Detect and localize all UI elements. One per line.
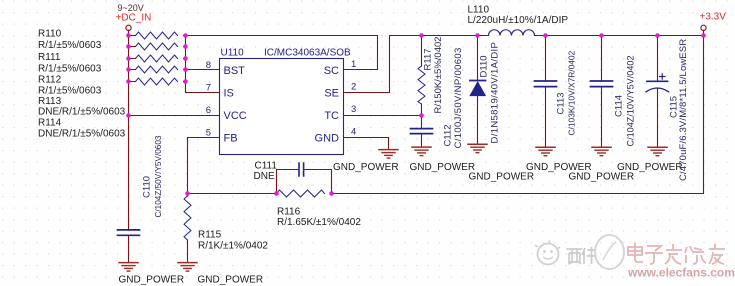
svg-text:SE: SE <box>324 88 339 100</box>
wire C110 to ground <box>128 236 130 262</box>
junction right bus row R113 <box>183 67 188 72</box>
ground GND_POWER under C110 <box>119 263 138 272</box>
svg-text:C113: C113 <box>556 92 567 114</box>
capacitor C111 <box>299 163 304 176</box>
svg-text:DNE/R/1/±5%/0603: DNE/R/1/±5%/0603 <box>38 129 126 140</box>
svg-text:R114: R114 <box>38 118 62 129</box>
svg-text:DNE: DNE <box>254 171 275 182</box>
svg-text:R/1K/±1%/0402: R/1K/±1%/0402 <box>198 241 268 252</box>
svg-text:L110: L110 <box>468 5 490 16</box>
ground GND_POWER under C113 <box>536 147 555 156</box>
resistor R114 <box>136 78 178 85</box>
svg-text:C112: C112 <box>443 124 454 146</box>
svg-text:C/470uF/6.3V/M/8*11.5/LowESR: C/470uF/6.3V/M/8*11.5/LowESR <box>678 39 689 181</box>
junction on DC_IN bus row R113 <box>126 67 131 72</box>
wire R110 leads <box>129 35 186 37</box>
ground GND_POWER under C114 <box>592 147 611 156</box>
svg-text:5: 5 <box>206 128 211 139</box>
svg-text:R/1.65K/±1%/0402: R/1.65K/±1%/0402 <box>277 217 361 228</box>
svg-text:C/104Z/10V/Y5V/0402: C/104Z/10V/Y5V/0402 <box>626 56 636 147</box>
junction output rail C114 tap <box>599 33 604 38</box>
wire pin 3 TC to node <box>343 115 422 117</box>
wire C115 top lead <box>657 36 659 81</box>
junction switch rail D110 tap <box>475 33 480 38</box>
junction switch rail R117 tap <box>419 33 424 38</box>
ground GND_POWER under R115 <box>178 263 197 272</box>
svg-text:DNE/R/1/±5%/0603: DNE/R/1/±5%/0603 <box>38 107 126 118</box>
resistor R113 <box>136 66 178 73</box>
svg-text:9~20V: 9~20V <box>118 3 144 13</box>
svg-text:+DC_IN: +DC_IN <box>116 13 152 24</box>
svg-text:R115: R115 <box>198 230 222 241</box>
wire R117 top lead <box>421 36 423 67</box>
svg-text:www.elecfans.com: www.elecfans.com <box>627 266 735 280</box>
wire C114 to ground <box>601 87 603 146</box>
junction on DC_IN bus VCC tap <box>126 113 131 118</box>
wire output rail to +3.3V <box>535 30 704 35</box>
wire R112 leads <box>129 58 186 60</box>
capacitor C114 <box>591 81 613 87</box>
svg-text:R113: R113 <box>38 96 62 107</box>
wire R115 bottom lead to ground <box>187 240 189 262</box>
wire C113 top lead <box>545 36 547 81</box>
junction right bus row R112 <box>183 56 188 61</box>
svg-text:IC/MC34063A/SOB: IC/MC34063A/SOB <box>264 48 351 59</box>
capacitor C110 <box>118 230 140 235</box>
wire R113 leads <box>129 69 186 71</box>
svg-text:GND_POWER: GND_POWER <box>617 162 683 173</box>
wire pin 5 FB down to feedback node <box>188 138 220 194</box>
svg-text:R/1/±5%/0603: R/1/±5%/0603 <box>38 86 102 97</box>
junction output rail +3.3V corner <box>701 33 706 38</box>
svg-text:C/100J/50V/NP/00603: C/100J/50V/NP/00603 <box>453 47 464 148</box>
ground GND_POWER under C115 <box>648 147 667 156</box>
wire C112 to ground <box>421 134 423 146</box>
ground GND_POWER at pin 4 <box>379 150 398 159</box>
svg-text:GND_POWER: GND_POWER <box>198 275 264 286</box>
junction on DC_IN bus row R110 <box>126 33 131 38</box>
svg-text:4: 4 <box>351 127 356 138</box>
wire R115 top lead <box>187 194 189 197</box>
svg-text:GND: GND <box>315 133 340 145</box>
wire right bus of resistor bank <box>185 36 187 93</box>
wire pin 4 GND to ground <box>343 138 389 150</box>
wire VIN rail to pin 1 SC <box>186 36 378 70</box>
watermark glyph 硬 <box>567 249 583 264</box>
junction on DC_IN bus row R112 <box>126 56 131 61</box>
junction TC node <box>419 113 424 118</box>
svg-text:GND_POWER: GND_POWER <box>469 172 535 183</box>
junction FB node <box>185 191 190 196</box>
wire R114 leads <box>129 81 186 83</box>
svg-text:C111: C111 <box>255 161 278 172</box>
power port +DC_IN circle <box>126 25 131 30</box>
svg-text:R117: R117 <box>423 48 434 70</box>
svg-text:C114: C114 <box>614 95 625 117</box>
svg-text:VCC: VCC <box>224 110 247 122</box>
wire C115 to ground <box>657 88 659 146</box>
junction right bus row R110 <box>183 33 188 38</box>
svg-text:2: 2 <box>351 82 356 93</box>
svg-text:1: 1 <box>351 59 356 70</box>
watermark glyph 子 <box>645 246 663 264</box>
svg-text:BST: BST <box>224 65 246 77</box>
svg-text:R116: R116 <box>277 207 301 218</box>
watermark glyph 电 <box>628 243 643 262</box>
wire TC node to C112 <box>421 116 423 129</box>
junction R116 left node <box>274 191 279 196</box>
svg-text:U110: U110 <box>221 48 245 59</box>
svg-text:TC: TC <box>324 110 339 122</box>
diode D110 <box>470 81 486 96</box>
resistor R111 <box>136 43 178 50</box>
svg-text:7: 7 <box>206 83 211 94</box>
inductor L110 <box>489 30 535 36</box>
svg-text:R/150K/±5%/0402: R/150K/±5%/0402 <box>433 36 444 113</box>
wire C111 branch <box>277 170 332 194</box>
capacitor C115 polarized <box>646 74 669 92</box>
svg-text:GND_POWER: GND_POWER <box>333 162 399 173</box>
svg-text:GND_POWER: GND_POWER <box>569 172 635 183</box>
wire DC_IN left bus vertical <box>128 31 130 230</box>
wire to pin 8 BST <box>186 69 220 71</box>
svg-text:C/103K/10V/X7R/0402: C/103K/10V/X7R/0402 <box>567 50 577 135</box>
svg-text:8: 8 <box>206 60 211 71</box>
junction output rail C113 tap <box>543 33 548 38</box>
junction output rail C115 tap <box>655 33 660 38</box>
svg-text:C/104Z/50V/Y5V/0603: C/104Z/50V/Y5V/0603 <box>154 135 163 217</box>
watermark glyph 件 <box>582 247 597 264</box>
wire pin 2 SE to switch rail <box>343 36 489 93</box>
resistor R116 <box>277 190 325 197</box>
svg-text:FB: FB <box>224 133 238 145</box>
svg-text:IS: IS <box>224 88 234 100</box>
IC U110 body <box>220 59 344 155</box>
wire FB node to R116 <box>188 193 277 195</box>
svg-text:R/1/±5%/0603: R/1/±5%/0603 <box>38 40 102 51</box>
svg-text:R/1/±5%/0603: R/1/±5%/0603 <box>38 64 102 75</box>
junction right bus row R111 <box>183 44 188 49</box>
svg-text:3: 3 <box>351 104 356 115</box>
wire D110 cathode lead <box>477 36 479 81</box>
wire to pin 7 IS <box>186 92 220 94</box>
ground GND_POWER under C112 <box>412 147 431 156</box>
svg-text:+3.3V: +3.3V <box>700 12 727 23</box>
svg-text:SC: SC <box>324 65 339 77</box>
resistor R117 <box>418 66 425 104</box>
svg-text:R111: R111 <box>38 52 61 63</box>
resistor R112 <box>136 55 178 62</box>
wire D110 anode to ground <box>477 96 479 144</box>
wire C113 to ground <box>545 87 547 146</box>
svg-text:R112: R112 <box>38 75 62 86</box>
wire R117 bottom lead <box>421 104 423 116</box>
watermark glyph 发 <box>665 244 682 264</box>
svg-text:6: 6 <box>206 105 211 116</box>
junction right bus row R114 <box>183 79 188 84</box>
power port +3.3V circle <box>701 25 706 30</box>
resistor R115 <box>184 196 191 240</box>
capacitor C112 <box>411 129 433 134</box>
wire R111 leads <box>129 46 186 48</box>
wire C114 top lead <box>601 36 603 81</box>
watermark glyph 友 <box>709 244 725 264</box>
wire VCC tap to pin 6 <box>129 115 220 117</box>
svg-text:GND_POWER: GND_POWER <box>119 275 185 286</box>
ground GND_POWER under D110 <box>468 144 487 153</box>
junction on DC_IN bus row R111 <box>126 44 131 49</box>
svg-text:L/220uH/±10%/1A/DIP: L/220uH/±10%/1A/DIP <box>468 15 569 26</box>
junction R116 right node <box>329 191 334 196</box>
wire feedback line to output <box>332 36 704 194</box>
svg-text:C110: C110 <box>142 176 153 198</box>
watermark big circle logo <box>595 235 624 269</box>
junction on DC_IN bus row R114 <box>126 79 131 84</box>
svg-text:R110: R110 <box>38 29 62 40</box>
watermark glyph 烧 <box>685 246 706 264</box>
watermark gear icon <box>535 241 560 265</box>
svg-text:D110: D110 <box>479 55 490 77</box>
resistor R110 <box>136 32 178 39</box>
svg-text:D/1N5819/40V/1A/DIP: D/1N5819/40V/1A/DIP <box>490 42 501 144</box>
svg-text:GND_POWER: GND_POWER <box>410 162 476 173</box>
capacitor C113 <box>535 81 557 87</box>
